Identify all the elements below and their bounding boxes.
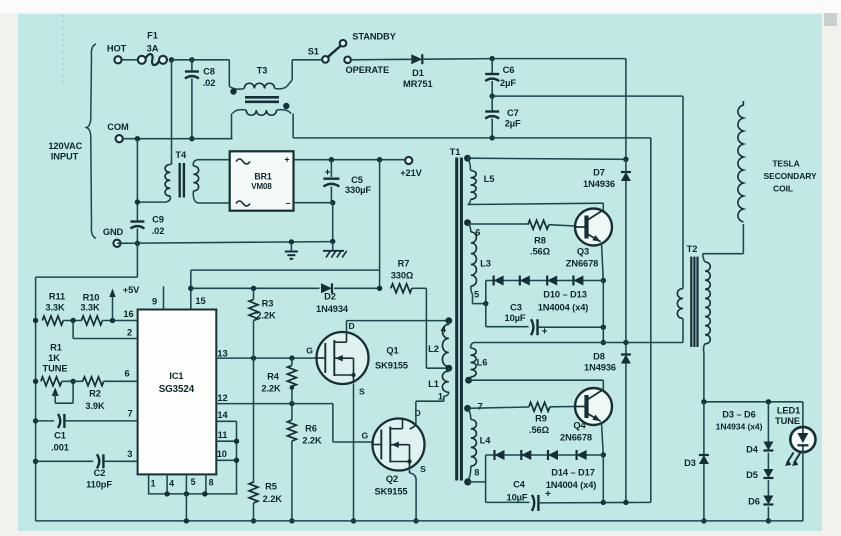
svg-text:3.3K: 3.3K <box>45 303 65 313</box>
wire pins to bottom bus <box>185 494 187 521</box>
svg-text:Q3: Q3 <box>577 247 589 257</box>
svg-text:2.2K: 2.2K <box>256 311 276 321</box>
wire C8 to T3 <box>192 59 229 61</box>
svg-text:2µF: 2µF <box>500 78 516 88</box>
T3 core bar <box>245 96 279 99</box>
pin 14 stub <box>216 420 236 422</box>
wire R3 to R5 <box>253 321 255 484</box>
wire T4 to BR1 ac2 <box>198 202 230 204</box>
svg-text:3.3K: 3.3K <box>80 303 100 313</box>
svg-text:2N6678: 2N6678 <box>560 433 592 443</box>
junction R3/R5 <box>251 355 256 360</box>
svg-text:R6: R6 <box>305 424 317 434</box>
wire down to D3 <box>703 402 705 455</box>
svg-text:D6: D6 <box>748 497 760 507</box>
svg-text:14: 14 <box>217 410 228 420</box>
svg-text:R8: R8 <box>534 236 546 246</box>
T3 secondary winding <box>246 110 276 115</box>
svg-text:+: + <box>325 168 331 179</box>
T2 primary winding <box>682 96 684 288</box>
svg-text:–: – <box>286 198 291 208</box>
pin 10 stub <box>216 459 236 461</box>
svg-text:D1: D1 <box>412 68 424 78</box>
svg-text:L3: L3 <box>480 259 491 269</box>
svg-text:MR751: MR751 <box>403 79 432 89</box>
Q3 collector wire <box>602 203 604 210</box>
diode D10 <box>494 276 504 286</box>
svg-text:Q2: Q2 <box>386 474 398 484</box>
svg-text:8: 8 <box>209 478 214 488</box>
svg-text:D3: D3 <box>684 458 696 468</box>
wire to LED branch <box>704 401 803 403</box>
wire Q1 drain to T1 pin 4 <box>347 320 449 322</box>
diodes D14-D17 <box>486 454 604 456</box>
junction C3 right <box>601 325 606 330</box>
svg-text:1N4934 (x4): 1N4934 (x4) <box>716 422 763 432</box>
pin 3 wire / C2 <box>33 459 38 464</box>
L6 bottom terminal <box>465 377 472 384</box>
wire pin7 to R9 <box>468 407 529 408</box>
resistor R5 <box>249 482 258 503</box>
transistor Q3 2N6678 <box>575 209 612 246</box>
svg-text:R4: R4 <box>267 372 280 382</box>
svg-text:D3 – D6: D3 – D6 <box>722 410 755 420</box>
svg-text:.02: .02 <box>152 226 165 236</box>
svg-text:R3: R3 <box>262 299 274 309</box>
svg-text:OPERATE: OPERATE <box>346 65 390 75</box>
junction C8 bottom on COM line <box>189 136 194 141</box>
svg-text:L5: L5 <box>484 174 495 184</box>
wire pin6 to R8 <box>468 223 528 225</box>
junction R3 top <box>251 286 256 291</box>
T4 primary winding <box>165 165 170 197</box>
resistor R8 <box>528 220 549 229</box>
junction C5neg/BR1- <box>330 200 335 205</box>
diode D1 <box>411 54 422 64</box>
wire COM line <box>123 138 233 140</box>
svg-text:D7: D7 <box>593 168 605 178</box>
T2 secondary winding <box>703 254 705 262</box>
Q1 drain lead <box>346 321 348 333</box>
winding L6 <box>471 343 474 349</box>
svg-text:3A: 3A <box>147 44 159 54</box>
wire T4 primary to COM/C9 line <box>137 201 166 203</box>
svg-text:10µF: 10µF <box>507 493 528 503</box>
T3 secondary left lead <box>233 110 247 114</box>
svg-text:3: 3 <box>127 449 132 459</box>
svg-text:Q4: Q4 <box>573 420 586 430</box>
svg-text:11: 11 <box>218 430 228 440</box>
svg-text:R10: R10 <box>83 293 100 303</box>
wire pins 14/11/10 down <box>236 421 238 494</box>
svg-text:D: D <box>348 321 354 331</box>
junction C8 top <box>189 57 194 62</box>
svg-text:6: 6 <box>124 369 129 379</box>
potentiometer R1 <box>41 377 62 386</box>
svg-text:D5: D5 <box>746 470 758 480</box>
svg-text:D2: D2 <box>324 292 336 302</box>
bridge rectifier BR1 <box>230 151 294 210</box>
svg-text:R5: R5 <box>265 482 277 492</box>
resistor R4 <box>287 365 296 386</box>
diode D14 <box>495 450 505 460</box>
junction chassis ground <box>330 239 335 244</box>
svg-text:.02: .02 <box>203 78 216 88</box>
svg-text:SECONDARY: SECONDARY <box>763 171 817 181</box>
junction GND / C9 <box>135 241 140 246</box>
wire S1 to D1 <box>351 58 411 61</box>
svg-text:G: G <box>306 346 313 356</box>
capacitor C6 <box>491 59 493 74</box>
terminal GND <box>113 240 120 247</box>
Q4 collector wire <box>602 380 604 390</box>
chassis ground symbol <box>332 241 334 250</box>
diode D17 <box>577 450 587 460</box>
wire T3 to S1 <box>292 59 322 61</box>
Q2 source lead <box>409 470 411 473</box>
svg-text:R9: R9 <box>535 413 547 423</box>
svg-text:2.2K: 2.2K <box>263 494 283 504</box>
svg-text:120VAC: 120VAC <box>48 141 82 151</box>
diode D7 <box>621 172 631 181</box>
resistor R2 <box>83 377 104 386</box>
svg-text:COIL: COIL <box>773 184 793 194</box>
svg-text:.56Ω: .56Ω <box>529 425 550 435</box>
capacitor C2 <box>97 454 99 468</box>
wire L6 to Q4 collector <box>469 379 604 381</box>
svg-text:R11: R11 <box>49 292 65 302</box>
junction C4/D8 line <box>623 500 628 505</box>
junction D2/R7/+21V <box>377 286 382 291</box>
junction +21V rail tap <box>377 157 382 162</box>
BR1 ac mark bottom <box>236 201 250 206</box>
wire Q2 source to bus <box>415 480 417 521</box>
junction D3 top <box>701 399 706 404</box>
svg-text:4: 4 <box>169 479 174 489</box>
wire Q1 source to bus <box>353 384 355 521</box>
svg-text:16: 16 <box>123 309 133 319</box>
T3 primary winding <box>244 83 274 88</box>
T1 pin 5 lead <box>472 294 474 304</box>
svg-text:D4: D4 <box>746 444 759 454</box>
earth ground symbol <box>290 242 292 252</box>
wire COM down to C9 <box>136 139 138 222</box>
svg-text:D14 – D17: D14 – D17 <box>551 467 595 477</box>
svg-text:VM08: VM08 <box>251 182 272 191</box>
resistor R11 <box>42 316 63 325</box>
junction Q3 emitter / D13 <box>601 278 606 283</box>
svg-text:COM: COM <box>107 122 129 132</box>
svg-text:L2: L2 <box>428 344 439 354</box>
svg-text:R1: R1 <box>50 343 62 353</box>
winding L1 <box>448 368 450 371</box>
svg-text:2.2K: 2.2K <box>302 436 322 446</box>
wire HOT to fuse <box>122 59 138 61</box>
svg-text:3.9K: 3.9K <box>85 401 105 411</box>
wire L5 to Q3 collector <box>468 203 604 204</box>
svg-text:L4: L4 <box>480 436 492 446</box>
rail to T2 primary bottom <box>601 340 606 345</box>
svg-text:S1: S1 <box>308 47 319 57</box>
svg-text:1N4004 (x4): 1N4004 (x4) <box>546 480 597 490</box>
svg-text:BR1: BR1 <box>254 172 272 182</box>
svg-text:+: + <box>545 489 551 500</box>
svg-text:T1: T1 <box>450 147 461 157</box>
svg-text:+5V: +5V <box>123 285 140 295</box>
phase dot T3 primary <box>230 88 236 94</box>
svg-text:+21V: +21V <box>400 168 422 178</box>
pin 15 <box>190 270 192 309</box>
diode D16 <box>548 450 558 460</box>
T1 pin 8 terminal <box>464 478 471 485</box>
svg-text:SG3524: SG3524 <box>159 384 195 395</box>
wire D17 down to C4 rail <box>602 455 604 502</box>
pin 13 rail <box>216 357 316 359</box>
svg-text:ZN6678: ZN6678 <box>566 259 598 269</box>
svg-text:IC1: IC1 <box>169 371 183 381</box>
svg-text:R7: R7 <box>398 259 410 269</box>
svg-text:10µF: 10µF <box>505 313 526 323</box>
wire pin 16 <box>102 320 137 322</box>
IC U1 SG3524 box <box>138 310 217 475</box>
fuse F1 <box>138 56 146 64</box>
LED1 <box>802 402 804 427</box>
T1 pin 7 terminal <box>464 405 471 412</box>
pin 6 / R1 R2 <box>33 379 38 384</box>
svg-text:330Ω: 330Ω <box>391 270 414 280</box>
junction C5 top <box>329 157 334 162</box>
wire node to C8 <box>172 59 192 61</box>
phase dot T3 secondary <box>283 103 289 109</box>
diodes D10-D13 <box>486 280 604 282</box>
svg-text:INPUT: INPUT <box>51 152 79 162</box>
svg-text:2.2K: 2.2K <box>261 384 281 394</box>
svg-text:C1: C1 <box>54 431 66 441</box>
T1 center tap terminal <box>445 365 452 372</box>
svg-text:1N4936: 1N4936 <box>584 363 616 373</box>
junction COM <box>135 136 140 141</box>
tesla secondary coil <box>738 101 744 222</box>
svg-text:D10 – D13: D10 – D13 <box>543 290 587 300</box>
svg-text:C4: C4 <box>513 480 526 490</box>
svg-text:C8: C8 <box>203 67 215 77</box>
pin 11 stub <box>216 440 236 442</box>
wiper to R1/R2 junction <box>72 381 74 403</box>
transistor Q2 SK9155 <box>373 419 425 471</box>
wire down right vertical A <box>625 59 627 160</box>
svg-text:R2: R2 <box>89 389 101 399</box>
wire upper supply rail <box>191 269 380 271</box>
svg-text:T3: T3 <box>257 66 268 76</box>
diode D12 <box>547 276 557 286</box>
svg-text:10: 10 <box>217 449 227 459</box>
svg-text:+: + <box>284 155 289 165</box>
pin 7 wire / C1 <box>33 418 38 423</box>
svg-text:7: 7 <box>127 409 132 419</box>
wire T2 secondary top <box>703 253 744 255</box>
svg-text:G: G <box>362 430 369 440</box>
diode D2 <box>321 283 332 293</box>
S1 standby contact <box>340 40 347 47</box>
wire D7 to D8 <box>625 181 627 355</box>
svg-text:1: 1 <box>151 479 156 489</box>
svg-text:Q1: Q1 <box>386 346 398 356</box>
resistor R9 <box>529 402 550 411</box>
Q3 emitter wire <box>602 244 604 281</box>
svg-text:C3: C3 <box>510 303 522 313</box>
T4 core bar <box>178 163 180 198</box>
svg-text:1N4934: 1N4934 <box>316 304 349 314</box>
pin 12 rail <box>216 403 333 405</box>
svg-text:1N4004 (x4): 1N4004 (x4) <box>538 303 589 313</box>
wire D8 down to C4 rail <box>625 364 627 503</box>
junction D4 chain top <box>766 399 771 404</box>
svg-text:1K: 1K <box>48 353 60 363</box>
junction C6/C7 <box>490 93 495 98</box>
diode D3 <box>699 455 709 464</box>
diode D8 <box>621 355 631 364</box>
wire to Q2 gate <box>333 441 373 443</box>
diode D4 <box>767 402 769 442</box>
Q4 emitter wire <box>602 423 604 455</box>
svg-text:TUNE: TUNE <box>43 364 68 374</box>
svg-text:TUNE: TUNE <box>775 416 800 426</box>
junction R4 top <box>289 355 294 360</box>
svg-text:STANDBY: STANDBY <box>352 31 396 41</box>
svg-text:F1: F1 <box>147 31 158 41</box>
capacitor C8 <box>191 60 193 72</box>
wire D13/C3 down to rail <box>602 281 604 343</box>
T1 pin 4 terminal <box>445 317 452 324</box>
svg-text:SK9155: SK9155 <box>375 360 408 370</box>
wire T2 secondary bottom <box>703 352 705 402</box>
resistor R7 <box>391 284 412 293</box>
bottom pins 1 4 5 8 <box>148 474 150 494</box>
svg-text:9: 9 <box>152 297 157 307</box>
wire vertical B down <box>650 138 652 503</box>
junction +5V <box>110 318 115 323</box>
wire gnd bus to left bus <box>136 243 138 277</box>
svg-text:2: 2 <box>127 328 132 338</box>
brace 120VAC input <box>87 44 97 239</box>
wire bottom pins bus <box>148 493 238 495</box>
svg-text:330µF: 330µF <box>345 185 371 195</box>
resistor R3 <box>249 300 258 321</box>
T3 secondary right lead <box>277 110 292 114</box>
wire left bus <box>35 277 37 521</box>
svg-text:S: S <box>420 464 426 474</box>
BR1 ac mark top <box>236 159 250 164</box>
svg-text:L1: L1 <box>428 379 439 389</box>
wire BR1- to C5 neg <box>294 202 333 204</box>
resistor R6 <box>287 420 296 441</box>
wire bottom bus <box>36 520 803 522</box>
wire top rail to right <box>492 58 626 60</box>
junction T4/C9 line <box>135 199 140 204</box>
wire D5 to D6 <box>767 480 769 495</box>
svg-text:8: 8 <box>474 468 479 478</box>
junction C7 bottom <box>490 135 495 140</box>
svg-text:7: 7 <box>477 401 482 411</box>
svg-text:.56Ω: .56Ω <box>530 247 551 257</box>
wire to T3 primary <box>228 60 230 87</box>
svg-text:TESLA: TESLA <box>772 159 799 169</box>
wire +21V down to R7 node <box>379 160 381 289</box>
diode D11 <box>520 276 530 286</box>
resistor R10 <box>81 316 102 325</box>
T1 top terminal <box>464 155 471 162</box>
svg-text:L6: L6 <box>477 358 488 368</box>
svg-text:C2: C2 <box>94 468 106 478</box>
svg-text:HOT: HOT <box>107 44 127 54</box>
wire R9 to Q4 base <box>550 406 575 408</box>
wire lower rail to D2 <box>191 287 320 289</box>
wire BR1+ to +21V <box>294 159 405 161</box>
svg-text:12: 12 <box>217 393 227 403</box>
winding L5 <box>468 158 471 170</box>
wire D1 to C6 <box>424 58 493 61</box>
terminal HOT <box>114 56 121 63</box>
wire T4 to BR1 ac1 <box>197 159 230 161</box>
LED light arrows <box>787 453 794 464</box>
+5V rail / pin 16 <box>33 318 38 323</box>
diode D15 <box>521 450 531 460</box>
ground bus wire <box>117 242 333 244</box>
wire rail y138 to C7 <box>293 137 492 139</box>
junction R4/R6 <box>289 401 294 406</box>
svg-text:S: S <box>359 387 365 397</box>
wire R7 to T1 center tap <box>425 288 427 368</box>
junction earth ground <box>289 239 294 244</box>
svg-text:1: 1 <box>438 391 443 401</box>
T1 pin 6 terminal <box>464 219 471 226</box>
svg-text:T4: T4 <box>175 150 187 160</box>
S1 operate contact <box>344 57 351 64</box>
svg-text:.001: .001 <box>51 443 69 453</box>
junction D8 rail <box>623 340 628 345</box>
svg-text:LED1: LED1 <box>777 405 800 415</box>
terminal COM <box>116 135 123 142</box>
T4 secondary winding <box>193 166 198 191</box>
svg-text:D8: D8 <box>593 352 605 362</box>
T2 primary bottom lead <box>682 319 684 343</box>
capacitor C4 <box>486 501 530 503</box>
svg-text:GND: GND <box>103 227 124 237</box>
wire D10 row to C3 <box>485 281 487 327</box>
node fuse output <box>169 57 174 62</box>
junction C6 top <box>490 56 495 61</box>
junction pin5/C3 <box>483 301 488 306</box>
S1 arm <box>328 46 341 58</box>
terminal +21V <box>405 157 412 164</box>
wire D4 to D5 <box>767 453 769 469</box>
junction C4/Q4 chain <box>601 500 606 505</box>
wire R8 to Q3 base <box>549 225 575 226</box>
transistor Q4 2N6678 <box>575 388 612 425</box>
svg-text:SK9155: SK9155 <box>375 487 408 497</box>
diode D6 <box>763 496 773 505</box>
T3 primary right lead <box>275 80 293 89</box>
+5V arrow <box>112 294 114 321</box>
capacitor C1 <box>58 414 60 428</box>
diode D5 <box>763 469 773 478</box>
capacitor C3 <box>486 326 529 328</box>
svg-text:+: + <box>542 327 548 338</box>
junction D7 top <box>623 157 628 162</box>
wire D14 row left vertical <box>485 455 487 502</box>
pin 2 wire <box>72 321 74 339</box>
wire Q2 drain to T1 pin 1 <box>415 401 417 425</box>
